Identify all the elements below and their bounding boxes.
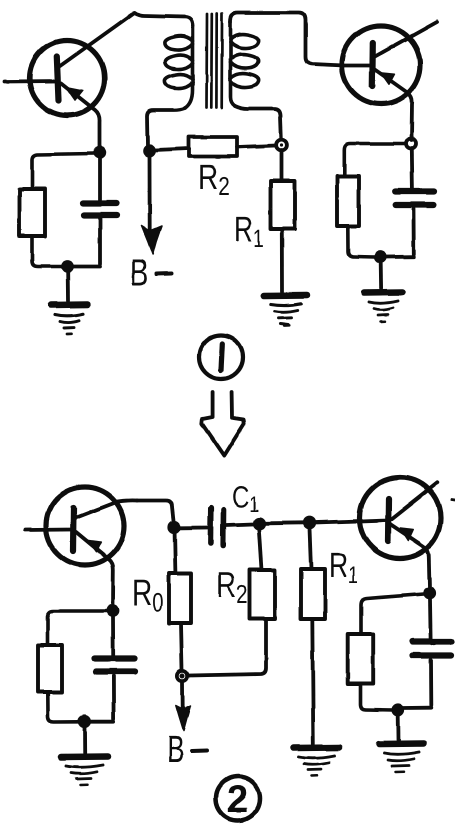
svg-text:2: 2: [227, 779, 248, 821]
node A junction dot: [143, 144, 156, 157]
node F junction dot: [303, 516, 316, 529]
svg-text:R2: R2: [216, 564, 248, 609]
wire R0 to node G: [181, 623, 182, 670]
node bottom-left junction dot: [61, 260, 74, 273]
wire node D to R0: [173, 533, 178, 573]
node emitter Q1 junction dot: [93, 146, 105, 158]
wire transformer secondary top to Q2 base: [231, 13, 345, 66]
transform arrow (hollow): [202, 392, 244, 456]
node D junction dot: [167, 521, 180, 534]
wire node F to R1: [310, 528, 312, 569]
wire transformer primary bottom to node A: [147, 108, 185, 146]
wire node I to ground: [396, 716, 400, 740]
capacitor (Q2 emitter): [386, 148, 434, 257]
wire left resistor to bottom junction: [32, 236, 62, 267]
transformer T1 core: [207, 14, 223, 108]
capacitor C1: [210, 508, 253, 546]
wire junction to ground: [66, 272, 70, 301]
stray mark: [280, 324, 288, 325]
transistor Q1: [5, 13, 134, 150]
resistor R1 (top): [271, 181, 296, 229]
wire resistor to node K: [48, 692, 79, 722]
transistor Q3: [25, 487, 137, 606]
svg-text:R2: R2: [198, 158, 230, 201]
node bottom-right junction dot: [374, 251, 387, 264]
wire node B to R1: [280, 150, 284, 181]
wire right resistor to bottom junction: [348, 226, 375, 257]
wire R1 to ground: [280, 229, 284, 292]
resistor R2 (top): [155, 137, 276, 157]
wire collector Q1 to transformer primary: [134, 13, 193, 26]
wire node D to C1: [180, 526, 208, 530]
stray mark 2: [452, 499, 455, 502]
svg-text:R1: R1: [329, 546, 358, 589]
capacitor (Q3 emitter): [90, 616, 135, 722]
figure label 2 (circled): [216, 777, 260, 822]
wire resistor to node I: [361, 684, 394, 710]
figure label 1 (circled): [199, 335, 243, 379]
wire node E to R2: [259, 529, 262, 570]
wire node J to left resistor: [48, 611, 108, 645]
resistor (Q1 emitter): [20, 189, 45, 236]
node E junction dot: [252, 517, 265, 530]
ground (Q3 branch): [61, 757, 108, 786]
resistor R2 (bottom): [250, 570, 276, 619]
B- feed arrow (top): [142, 156, 162, 255]
wire node E to node F: [265, 521, 304, 525]
transformer T1 secondary winding: [231, 22, 259, 106]
wire emitter junction to left resistor: [32, 154, 94, 190]
wire node G to R2 bottom: [189, 619, 266, 676]
ground (Q1 branch): [51, 305, 87, 335]
wire node C to right resistor: [344, 144, 406, 177]
ground (under R1 top): [264, 296, 307, 327]
node B junction (ring): [276, 140, 287, 151]
wire transformer secondary bottom to node B: [235, 106, 281, 139]
node H emitter Q4 junction dot: [423, 587, 436, 600]
resistor (Q4 emitter): [348, 634, 374, 684]
resistor (Q2 emitter): [337, 176, 359, 226]
ground (Q2 branch): [364, 292, 403, 322]
transformer T1 primary winding: [165, 26, 193, 108]
node C ring junction (Q2 emitter branch): [406, 139, 416, 149]
node I junction dot: [391, 703, 404, 716]
svg-text:R1: R1: [234, 210, 264, 253]
wire junction to ground: [379, 263, 383, 288]
svg-text:B: B: [167, 729, 184, 771]
capacitor (Q4 emitter): [403, 599, 452, 708]
svg-text:R0: R0: [132, 572, 164, 617]
wire Q3 collector to node D: [137, 501, 174, 523]
capacitor (Q1 emitter): [72, 158, 117, 267]
B- feed arrow (bottom): [176, 682, 191, 731]
ground (under R1 bottom): [294, 748, 339, 777]
wire R1 to ground: [312, 619, 313, 744]
svg-text:B: B: [130, 252, 148, 293]
svg-text:C1: C1: [232, 481, 259, 516]
node G junction dot: [176, 669, 190, 683]
ground (Q4 branch): [379, 744, 424, 773]
resistor R1 (bottom): [301, 569, 325, 619]
transistor Q2: [342, 22, 437, 140]
node K junction dot: [78, 715, 91, 728]
wire node K to ground: [83, 727, 87, 753]
wire node F to Q4 base: [315, 521, 360, 523]
transistor Q4: [360, 478, 441, 589]
resistor (Q3 emitter): [38, 645, 62, 692]
node J emitter Q3 junction dot: [107, 604, 120, 617]
resistor R0: [169, 573, 191, 623]
wire node H to right resistor: [361, 594, 424, 634]
